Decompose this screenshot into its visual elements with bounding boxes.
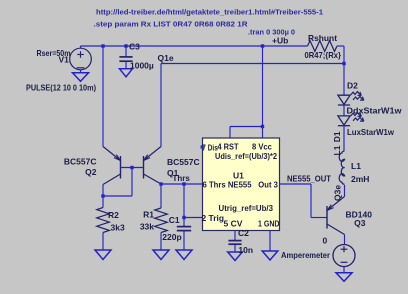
svg-text:10n: 10n [238, 245, 253, 255]
svg-text:Out 3: Out 3 [258, 181, 278, 190]
svg-text:U1: U1 [233, 171, 244, 181]
svg-text:V1: V1 [59, 55, 70, 65]
svg-text:4 RST: 4 RST [218, 142, 240, 152]
svg-text:Utrig_ref=Ub/3: Utrig_ref=Ub/3 [219, 204, 274, 213]
svg-text:Thrs: Thrs [173, 174, 191, 183]
svg-text:33k: 33k [140, 222, 154, 232]
svg-text:0: 0 [323, 236, 328, 246]
svg-text:PULSE(12 10 0 10m): PULSE(12 10 0 10m) [26, 83, 96, 93]
svg-text:DdxStarW1w: DdxStarW1w [347, 106, 402, 116]
svg-text:0R47;{Rx}: 0R47;{Rx} [305, 50, 342, 60]
svg-text:2mH: 2mH [351, 174, 369, 184]
svg-text:D2: D2 [347, 81, 358, 91]
svg-text:5 CV: 5 CV [224, 219, 243, 229]
svg-text:Rshunt: Rshunt [308, 33, 337, 43]
svg-text:R1: R1 [143, 210, 154, 220]
svg-text:Q1e: Q1e [158, 53, 174, 63]
svg-text:D1: D1 [332, 131, 342, 142]
svg-text:LuxStarW1w: LuxStarW1w [347, 127, 394, 137]
svg-text:Q3: Q3 [354, 218, 366, 228]
svg-text:http://led-treiber.de/html/get: http://led-treiber.de/html/getaktete_tre… [96, 10, 323, 17]
svg-text:NE555_OUT: NE555_OUT [287, 174, 332, 184]
svg-text:6 Thrs NE555: 6 Thrs NE555 [203, 181, 253, 190]
svg-text:Q2: Q2 [85, 167, 97, 177]
svg-text:R2: R2 [108, 210, 119, 220]
svg-text:Amperemeter: Amperemeter [281, 250, 331, 260]
svg-text:C2: C2 [238, 228, 249, 238]
svg-text:8 Vcc: 8 Vcc [252, 142, 272, 152]
svg-text:1000µ: 1000µ [130, 61, 154, 71]
svg-text:Q3e: Q3e [333, 185, 343, 201]
svg-text:BC557C: BC557C [64, 157, 97, 167]
svg-text:C3: C3 [129, 42, 140, 52]
svg-text:+Ub: +Ub [272, 36, 288, 46]
svg-text:L1: L1 [351, 161, 361, 171]
svg-text:C1: C1 [169, 215, 180, 225]
svg-text:3k3: 3k3 [111, 223, 125, 233]
svg-text:2 Trig: 2 Trig [202, 213, 225, 223]
svg-text:BC557C: BC557C [167, 157, 200, 167]
svg-text:L1: L1 [332, 145, 342, 155]
svg-text:220p: 220p [162, 232, 181, 242]
svg-text:Udis_ref=(Ub/3)*2: Udis_ref=(Ub/3)*2 [215, 152, 277, 161]
svg-text:.step param Rx LIST 0R47 0R68: .step param Rx LIST 0R47 0R68 0R82 1R [94, 22, 248, 29]
svg-text:1 GND: 1 GND [258, 219, 280, 229]
